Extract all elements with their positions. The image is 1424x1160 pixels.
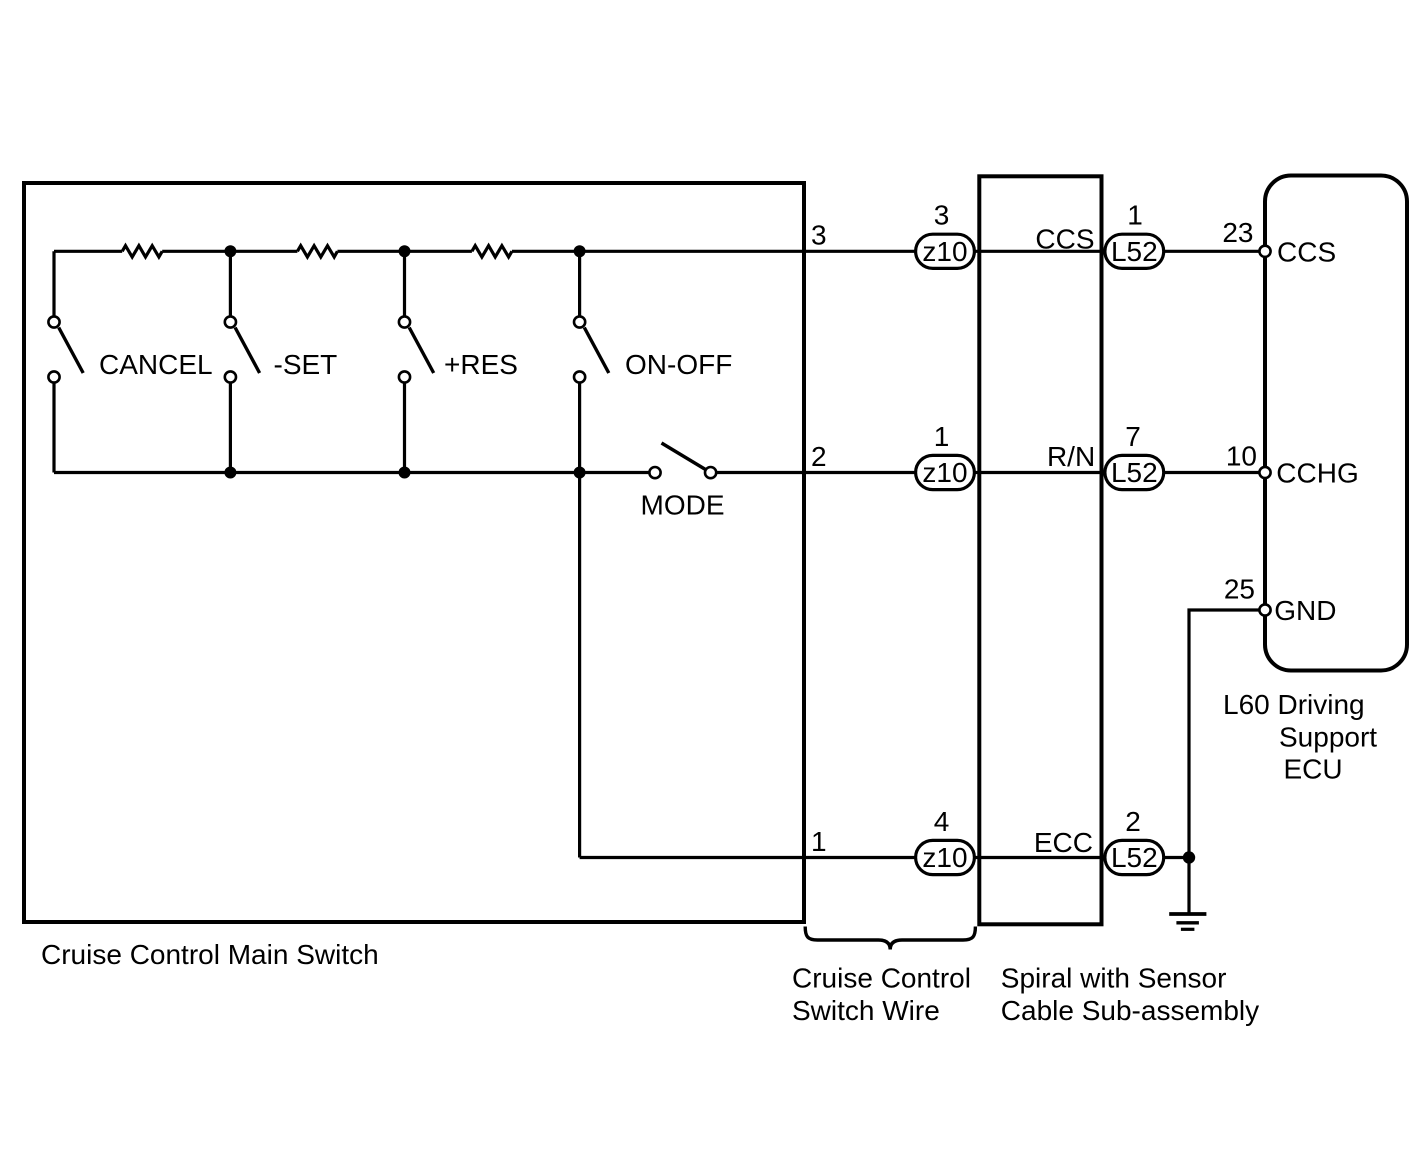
- svg-text:R/N: R/N: [1047, 441, 1095, 472]
- switch MODE blade: [662, 443, 706, 470]
- switch CANCEL blade: [59, 328, 83, 374]
- svg-text:CANCEL: CANCEL: [99, 349, 213, 380]
- svg-text:2: 2: [1125, 806, 1141, 837]
- resistor between -SET and +RES: [297, 246, 337, 257]
- svg-text:z10: z10: [922, 457, 967, 488]
- svg-text:23: 23: [1222, 217, 1253, 248]
- svg-text:2: 2: [811, 441, 827, 472]
- svg-text:1: 1: [811, 826, 827, 857]
- switch +RES blade: [409, 328, 434, 374]
- wire: CANCEL branch stubs: [52, 251, 55, 472]
- wire: stub to ground symbol: [1187, 858, 1190, 915]
- svg-text:Cruise Control Main Switch: Cruise Control Main Switch: [41, 939, 379, 970]
- wire: ground riser up to GND pin: [1189, 610, 1265, 858]
- junction dot top bus at +RES: [399, 245, 411, 257]
- resistor between CANCEL and -SET: [122, 246, 162, 257]
- svg-text:z10: z10: [922, 842, 967, 873]
- svg-text:3: 3: [934, 200, 950, 231]
- svg-text:Support: Support: [1279, 722, 1377, 753]
- Cruise Control Main Switch box: [24, 183, 804, 922]
- connector L52 pin 2 oval: [1105, 840, 1164, 874]
- svg-text:ON-OFF: ON-OFF: [625, 349, 732, 380]
- svg-text:25: 25: [1224, 574, 1255, 605]
- svg-text:CCS: CCS: [1277, 236, 1336, 267]
- svg-text:7: 7: [1125, 421, 1141, 452]
- wire: ON-OFF branch stubs: [578, 251, 581, 472]
- resistor between +RES and ON-OFF: [472, 246, 512, 257]
- svg-text:CCS: CCS: [1035, 223, 1094, 254]
- junction dot at ground riser: [1183, 851, 1195, 863]
- svg-text:GND: GND: [1274, 595, 1336, 626]
- junction dot top bus at ON-OFF: [574, 245, 586, 257]
- switch CANCEL terminal circles: [48, 316, 59, 327]
- switch -SET terminal circles: [225, 316, 236, 327]
- svg-text:z10: z10: [922, 236, 967, 267]
- switch MODE terminal circles: [649, 467, 660, 478]
- switch ON-OFF blade: [584, 328, 609, 374]
- svg-text:Cable Sub-assembly: Cable Sub-assembly: [1001, 995, 1259, 1026]
- svg-text:MODE: MODE: [641, 489, 725, 520]
- svg-text:1: 1: [1127, 200, 1143, 231]
- svg-text:4: 4: [934, 806, 950, 837]
- wire: ECC row horizontal (node 1): [580, 856, 1189, 859]
- switch ON-OFF terminal circles: [574, 316, 585, 327]
- connector L52 pin 7 oval: [1105, 455, 1164, 489]
- wire: vertical drop to ECC row: [578, 473, 581, 858]
- svg-text:Switch Wire: Switch Wire: [792, 995, 940, 1026]
- L60 Driving Support ECU box U1: [1265, 176, 1407, 671]
- wire: bottom bus R/N row right of MODE (node 2): [713, 471, 1265, 474]
- svg-text:Cruise Control: Cruise Control: [792, 962, 971, 993]
- ground symbol: [1169, 912, 1206, 916]
- svg-text:CCHG: CCHG: [1276, 458, 1358, 489]
- connector L52 pin 1 oval: [1105, 234, 1164, 268]
- svg-text:10: 10: [1226, 441, 1257, 472]
- wire: +RES branch stubs: [403, 251, 406, 472]
- brace for Cruise Control Switch Wire: [805, 927, 975, 950]
- connector z10 pin 3 oval: [916, 234, 975, 268]
- connector z10 pin 4 oval: [916, 840, 975, 874]
- svg-text:ECU: ECU: [1284, 754, 1343, 785]
- svg-text:1: 1: [934, 421, 950, 452]
- junction dot bottom bus at ON-OFF drop: [574, 467, 586, 479]
- junction dot bottom bus at +RES: [399, 467, 411, 479]
- junction dot top bus at -SET: [224, 245, 236, 257]
- ECU pin 25 circle: [1259, 604, 1270, 615]
- svg-text:3: 3: [811, 220, 827, 251]
- switch +RES terminal circles: [399, 316, 410, 327]
- svg-text:L60 Driving: L60 Driving: [1223, 689, 1365, 720]
- connector z10 pin 1 oval: [916, 455, 975, 489]
- svg-text:L52: L52: [1111, 457, 1158, 488]
- svg-text:+RES: +RES: [444, 349, 518, 380]
- svg-text:L52: L52: [1111, 842, 1158, 873]
- junction dot bottom bus at -SET: [224, 467, 236, 479]
- wire: -SET branch stubs: [229, 251, 232, 472]
- svg-text:L52: L52: [1111, 236, 1158, 267]
- svg-text:Spiral with Sensor: Spiral with Sensor: [1001, 962, 1227, 993]
- wire: top bus CCS row (node 3): [54, 250, 1265, 253]
- switch -SET blade: [235, 328, 260, 374]
- wire: bottom bus R/N row left of MODE: [54, 471, 652, 474]
- svg-text:-SET: -SET: [274, 349, 338, 380]
- Spiral with Sensor Cable Sub-assembly box: [979, 176, 1101, 924]
- ECU pin 10 circle: [1259, 467, 1270, 478]
- svg-text:ECC: ECC: [1034, 827, 1093, 858]
- ECU pin 23 circle: [1259, 246, 1270, 257]
